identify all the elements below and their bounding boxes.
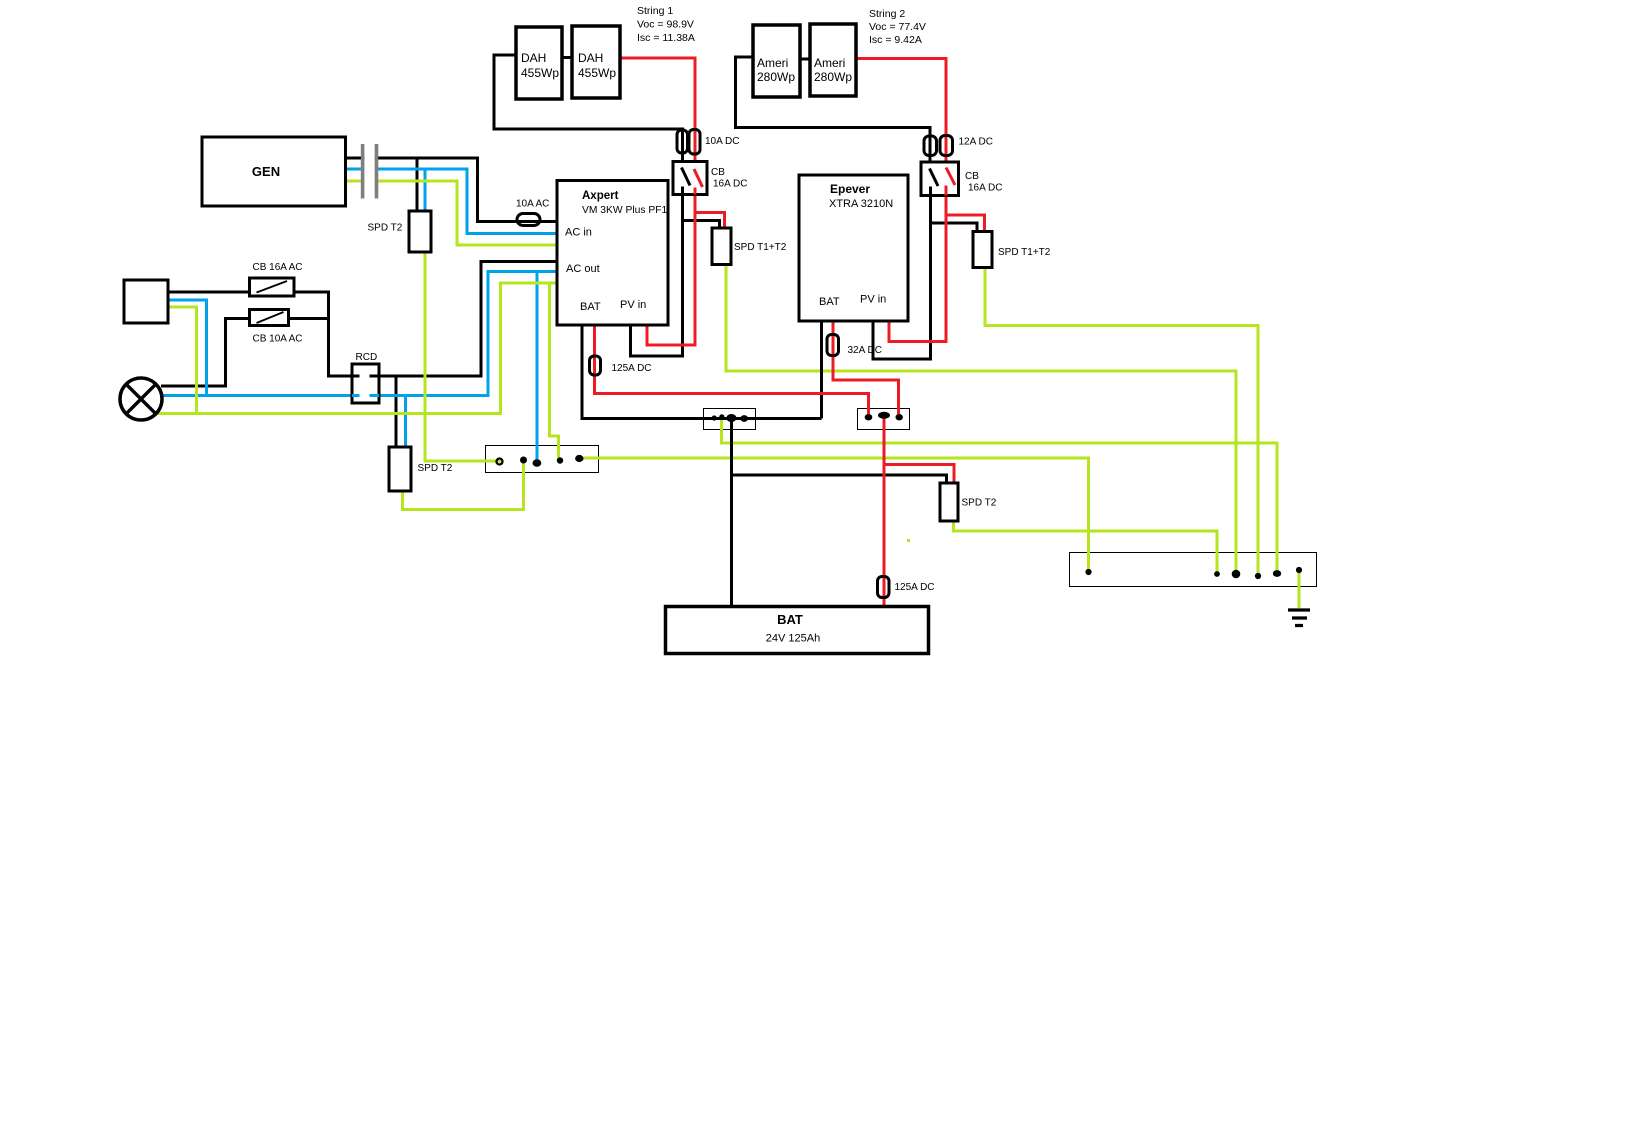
wire outlet E down to lamp line xyxy=(168,307,197,414)
junction dots earth bus xyxy=(1085,569,1091,575)
svg-text:32A DC: 32A DC xyxy=(848,345,882,356)
wire lamp E to Axpert AC out E xyxy=(157,283,557,414)
wire SPD T1+T2 Epever earth to bus xyxy=(985,268,1258,577)
wire RCD out to Axpert AC out L xyxy=(379,262,557,377)
wire Epever BAT negative down to TB1 line xyxy=(820,321,823,419)
fuse 125A DC (Axpert battery) xyxy=(590,356,601,375)
wire CB to SPD T1+T2 negative tee xyxy=(683,221,720,229)
svg-text:280Wp: 280Wp xyxy=(757,70,795,84)
generator coupling bar right xyxy=(375,144,379,199)
fuse 12A DC left xyxy=(924,136,937,156)
surge protector SPD T2 (battery) xyxy=(940,483,958,521)
wire N drop to SPD T2 lower xyxy=(404,396,407,448)
wire Axpert BAT positive to TB2 xyxy=(595,325,869,418)
svg-text:String 2: String 2 xyxy=(869,8,905,20)
terminal block TB2 (battery positive) xyxy=(858,409,910,430)
svg-text:String 1: String 1 xyxy=(637,5,673,17)
wire Epever CB to SPD T1+T2 negative tee xyxy=(931,223,978,232)
wire string1 positive: DAH2 to 10A DC fuse into CB xyxy=(620,58,695,168)
svg-text:Isc = 11.38A: Isc = 11.38A xyxy=(637,32,695,44)
wire lamp to CB 10A AC xyxy=(161,319,250,387)
svg-text:Axpert: Axpert xyxy=(582,190,619,202)
wire string1 negative: panel DAH1 to fuse to CB xyxy=(494,55,683,168)
svg-text:Epever: Epever xyxy=(830,182,870,196)
svg-text:BAT: BAT xyxy=(777,612,803,627)
svg-text:SPD T2: SPD T2 xyxy=(418,463,453,474)
wire GEN L drop to SPD T2 xyxy=(416,158,419,211)
surge protector SPD T2 (generator) xyxy=(409,211,431,252)
PV panel DAH1 455Wp xyxy=(516,27,562,99)
svg-text:BAT: BAT xyxy=(819,296,840,308)
fuse 10A DC left xyxy=(677,130,688,153)
wire GEN N drop to SPD T2 xyxy=(424,169,427,211)
breaker CB 16A AC xyxy=(250,278,295,296)
wire bus to ground electrode xyxy=(1298,571,1301,608)
svg-text:125A DC: 125A DC xyxy=(612,363,652,374)
surge protector SPD T2 (distribution) xyxy=(389,447,411,491)
wire outlet N down to lamp line xyxy=(168,300,207,396)
fuse 12A DC right xyxy=(940,136,953,156)
svg-text:RCD: RCD xyxy=(356,352,378,363)
svg-text:SPD T1+T2: SPD T1+T2 xyxy=(734,242,787,253)
wire string2 negative: panel Ameri1 to fuse to CB xyxy=(736,57,931,168)
svg-text:Voc = 77.4V: Voc = 77.4V xyxy=(869,21,926,33)
outlet box xyxy=(124,280,168,323)
generator coupling bar left xyxy=(361,144,365,199)
wire AC out E drop to terminal strip xyxy=(550,283,559,460)
wire SPD T2 battery earth to bus xyxy=(954,521,1218,574)
ground electrode symbol xyxy=(1288,610,1310,626)
svg-text:455Wp: 455Wp xyxy=(578,66,616,80)
wire Epever CB to SPD T1+T2 positive tee xyxy=(946,215,985,232)
svg-text:PV in: PV in xyxy=(860,294,886,306)
svg-text:16A DC: 16A DC xyxy=(713,179,747,190)
svg-text:280Wp: 280Wp xyxy=(814,70,852,84)
breaker CB 10A AC xyxy=(250,310,289,326)
svg-text:CB: CB xyxy=(965,171,979,182)
wire SPD T1+T2 Axpert earth to bus xyxy=(726,265,1236,575)
wire Axpert PV in negative loop xyxy=(631,195,683,357)
wire CB to Axpert PV in positive loop xyxy=(647,195,695,346)
svg-text:DAH: DAH xyxy=(521,51,546,65)
generator GEN xyxy=(202,137,346,206)
wire between DAH panels xyxy=(562,56,572,59)
wire GEN N to Axpert AC in xyxy=(346,169,558,234)
svg-text:SPD T2: SPD T2 xyxy=(368,223,403,234)
wire SPD T2 GEN earth to terminal strip xyxy=(425,252,501,461)
charge controller Epever XTRA 3210N xyxy=(799,175,908,321)
gap between coupling bars xyxy=(364,142,375,200)
junction dots TB1 xyxy=(712,415,717,420)
junction dots TB2 xyxy=(865,414,873,420)
svg-text:PV in: PV in xyxy=(620,299,646,311)
PV panel DAH2 455Wp xyxy=(572,26,620,98)
wire TB1 tee to SPD T2 battery xyxy=(732,475,947,483)
wire string2 positive: Ameri2 to 12A DC fuse into CB xyxy=(856,59,946,168)
svg-text:BAT: BAT xyxy=(580,301,601,313)
RCD xyxy=(352,364,379,403)
battery BAT 24V 125Ah xyxy=(666,607,929,654)
svg-text:AC in: AC in xyxy=(565,227,592,239)
svg-text:CB 10A AC: CB 10A AC xyxy=(253,334,303,345)
svg-text:CB: CB xyxy=(711,167,725,178)
svg-text:16A DC: 16A DC xyxy=(968,183,1002,194)
wire TB1 to battery negative xyxy=(730,419,733,607)
wire Axpert BAT negative to TB1 xyxy=(582,325,822,419)
wire CB 16A AC to RCD xyxy=(294,292,352,376)
fuse 10A AC xyxy=(517,214,540,226)
svg-text:10A AC: 10A AC xyxy=(516,199,549,210)
wire Epever CB to PV in positive loop xyxy=(889,196,946,342)
fuse 125A DC (battery main) xyxy=(878,577,890,598)
svg-text:SPD T1+T2: SPD T1+T2 xyxy=(998,247,1051,258)
wire TB1 earth to bus xyxy=(722,419,1278,574)
svg-text:Ameri: Ameri xyxy=(757,56,788,70)
svg-text:AC out: AC out xyxy=(566,263,600,275)
wire CB to SPD T1+T2 positive tee xyxy=(695,213,725,229)
surge protector SPD T1+T2 (Epever PV) xyxy=(973,232,992,268)
wire lamp N through RCD to Axpert AC out N xyxy=(162,272,558,396)
wire TB2 tee to SPD T2 battery xyxy=(884,465,954,484)
earth bus bar xyxy=(1070,553,1317,587)
wire Epever BAT positive through 32A fuse to TB2 xyxy=(833,321,899,418)
inverter Axpert VM 3KW Plus PF1 xyxy=(557,181,668,326)
svg-text:CB 16A AC: CB 16A AC xyxy=(253,262,303,273)
terminal block TB1 (battery negative) xyxy=(704,409,756,430)
fuse 32A DC (Epever battery) xyxy=(827,335,839,356)
wire between Ameri panels xyxy=(800,58,810,61)
breaker CB 16A DC (Axpert string) xyxy=(673,162,707,195)
wire terminal strip to earth bus xyxy=(579,458,1089,572)
wire AC out N drop to terminal strip xyxy=(536,272,539,463)
lamp xyxy=(120,378,162,420)
wire CB 10A AC to junction xyxy=(289,317,331,320)
breaker CB 16A DC (Epever string) xyxy=(921,162,959,196)
wire Epever PV in negative loop xyxy=(873,196,931,360)
terminal strip TS1 (AC neutral/earth strip) xyxy=(486,446,599,473)
PV panel Ameri1 280Wp xyxy=(753,25,800,97)
svg-text:Voc = 98.9V: Voc = 98.9V xyxy=(637,19,694,31)
svg-text:455Wp: 455Wp xyxy=(521,66,559,80)
svg-text:10A DC: 10A DC xyxy=(705,136,739,147)
svg-text:DAH: DAH xyxy=(578,51,603,65)
svg-text:GEN: GEN xyxy=(252,164,280,179)
svg-text:125A DC: 125A DC xyxy=(895,582,935,593)
PV panel Ameri2 280Wp xyxy=(810,24,856,96)
svg-text:12A DC: 12A DC xyxy=(959,137,993,148)
wire SPD T2 lower earth to terminal strip xyxy=(403,460,524,510)
svg-text:24V 125Ah: 24V 125Ah xyxy=(766,633,820,645)
wire TB2 through 125A fuse to battery positive xyxy=(883,418,886,607)
stray green mark xyxy=(907,539,910,542)
wire GEN E to Axpert AC in xyxy=(346,181,558,245)
surge protector SPD T1+T2 (Axpert PV) xyxy=(712,228,731,265)
wire outlet to CB 16A AC xyxy=(168,291,250,294)
svg-text:SPD T2: SPD T2 xyxy=(962,498,997,509)
fuse 10A DC right xyxy=(689,130,700,155)
svg-text:VM 3KW Plus PF1: VM 3KW Plus PF1 xyxy=(582,205,668,216)
wire RCD out drop to SPD T2 lower xyxy=(395,376,398,447)
svg-text:XTRA 3210N: XTRA 3210N xyxy=(829,198,893,210)
svg-text:Isc = 9.42A: Isc = 9.42A xyxy=(869,34,922,46)
svg-text:Ameri: Ameri xyxy=(814,56,845,70)
wire GEN L to 10A AC fuse to Axpert AC in xyxy=(346,158,558,222)
junction dots terminal strip TS1 xyxy=(497,459,503,465)
